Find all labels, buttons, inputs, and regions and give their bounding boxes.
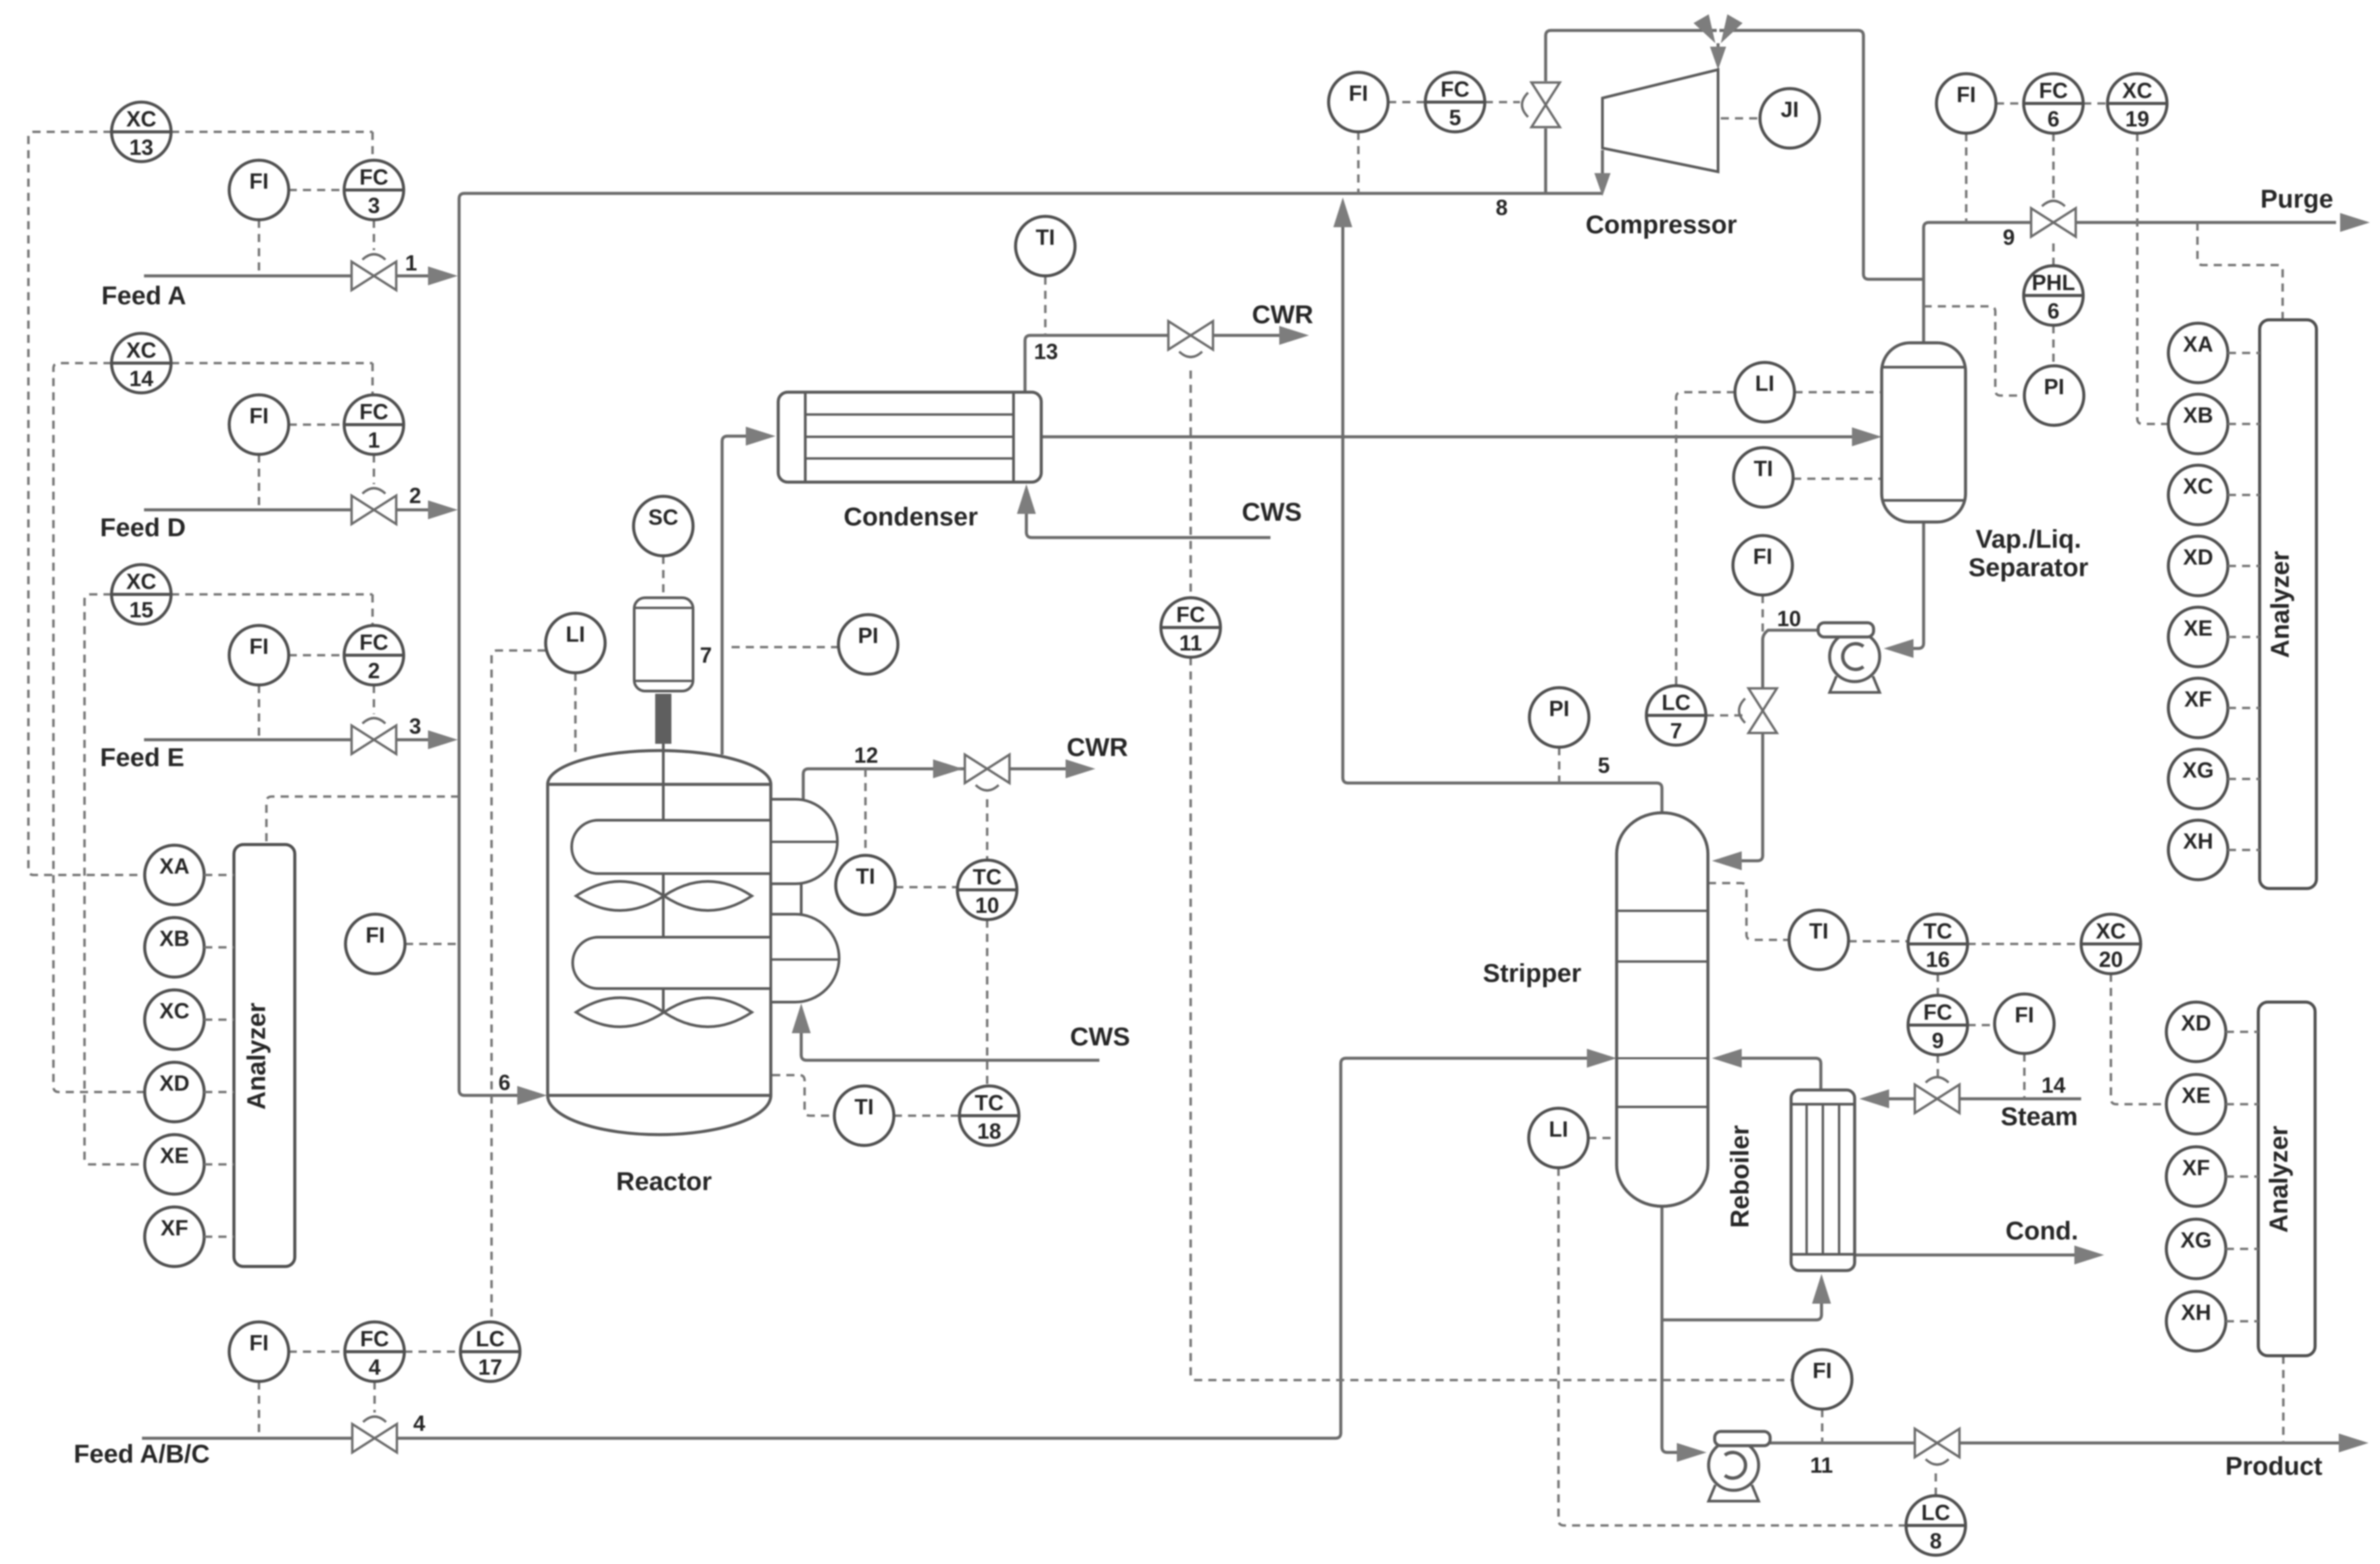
svg-text:FI: FI xyxy=(249,1331,268,1355)
svg-text:8: 8 xyxy=(1930,1529,1942,1553)
wire Purge arrow xyxy=(2340,213,2370,232)
wire FC11 output to product FI xyxy=(1191,657,1793,1380)
wire anti-surge arrow into suction junction xyxy=(1694,14,1723,47)
wire FC9 to steam valve xyxy=(1936,1055,1939,1079)
wire FI (steam) tap xyxy=(2023,1053,2026,1099)
wire XC19 sample from analyzer XB xyxy=(2137,133,2168,424)
wire TI (condenser) tap xyxy=(1044,277,1047,335)
reactor impeller upper xyxy=(576,882,752,911)
svg-text:CWS: CWS xyxy=(1070,1023,1130,1051)
svg-text:18: 18 xyxy=(977,1119,1001,1143)
svg-text:XH: XH xyxy=(2183,829,2213,853)
valve anti-surge (compressor recycle) xyxy=(1522,82,1560,127)
svg-text:FC: FC xyxy=(360,630,389,655)
wire XF to analyzer (feed) xyxy=(204,1235,234,1238)
instrument LC8 xyxy=(1906,1496,1966,1555)
wire PHL6 to PI xyxy=(2052,325,2055,366)
wire stripper bottoms down-leg xyxy=(1662,1204,1681,1452)
svg-text:Cond.: Cond. xyxy=(2005,1217,2078,1246)
svg-text:LC: LC xyxy=(1662,690,1691,715)
wire reactor LI tap to vessel xyxy=(574,673,577,752)
wire XG to analyzer (purge) xyxy=(2228,778,2260,780)
svg-text:6: 6 xyxy=(2047,299,2060,323)
svg-text:Compressor: Compressor xyxy=(1586,211,1737,239)
instrument XC (reactor feed analyzer) xyxy=(145,990,204,1049)
instrument FC4 xyxy=(345,1322,404,1381)
svg-text:XF: XF xyxy=(2185,687,2212,711)
wire XD to analyzer (product) xyxy=(2226,1030,2258,1033)
instrument XC14 xyxy=(112,333,171,393)
svg-text:LI: LI xyxy=(566,622,585,646)
wire stripper bottoms branch to reboiler xyxy=(1662,1301,1822,1320)
instrument FI (feed E) xyxy=(229,625,289,685)
wire FI-FC6 link xyxy=(1996,102,2024,105)
wire separator tap to PI xyxy=(1924,306,2024,396)
svg-text:11: 11 xyxy=(1179,631,1202,655)
reactor agitator motor xyxy=(634,598,693,691)
svg-text:XC: XC xyxy=(2183,474,2213,498)
wire FI (product) tap xyxy=(1821,1409,1824,1443)
wire feed A/B/C line to stripper (stream 4) xyxy=(142,1058,1589,1438)
wire feed D line (stream 2) xyxy=(144,508,433,512)
svg-text:Condenser: Condenser xyxy=(844,503,978,531)
wire purge sample to analyzer xyxy=(2197,222,2283,320)
svg-text:Product: Product xyxy=(2225,1452,2323,1481)
instrument LC7 xyxy=(1646,686,1706,745)
instrument XB (reactor feed analyzer) xyxy=(145,918,204,977)
svg-text:6: 6 xyxy=(2047,107,2060,131)
instrument XD (purge analyzer) xyxy=(2168,536,2228,596)
wire XB to analyzer (feed) xyxy=(204,946,234,949)
wire condenser CWS supply xyxy=(1026,512,1270,538)
svg-text:FI: FI xyxy=(1753,544,1772,569)
svg-text:Feed A: Feed A xyxy=(101,282,186,310)
svg-text:9: 9 xyxy=(1932,1028,1944,1053)
stripper column xyxy=(1617,813,1708,1206)
svg-text:1: 1 xyxy=(405,251,417,275)
svg-text:1: 1 xyxy=(368,428,380,452)
svg-text:13: 13 xyxy=(1034,339,1058,364)
svg-text:XD: XD xyxy=(160,1071,189,1095)
svg-text:Steam: Steam xyxy=(2001,1103,2078,1131)
instrument FC3 xyxy=(344,160,404,220)
svg-text:XC: XC xyxy=(126,569,156,594)
instrument FI (compressor suction) xyxy=(1329,72,1388,132)
wire XC14 sample line from analyzer XD xyxy=(53,363,144,1092)
wire XC20 sample from analyzer XE xyxy=(2111,974,2166,1104)
wire CWS arrow into reactor jacket xyxy=(792,1003,811,1033)
instrument FC6 xyxy=(2024,74,2083,133)
svg-text:XA: XA xyxy=(160,854,189,878)
wire CWS arrow into condenser xyxy=(1017,484,1036,514)
instrument XC (purge analyzer) xyxy=(2168,465,2228,525)
wire TI-TC10 link xyxy=(895,886,957,888)
analyzer box (reactor feed) xyxy=(234,845,295,1266)
wire XC14 output to FC1 xyxy=(171,363,373,395)
svg-text:CWR: CWR xyxy=(1067,734,1128,762)
svg-text:14: 14 xyxy=(2041,1073,2066,1097)
wire separator gas line to purge valve (stream 9) xyxy=(1924,222,2336,343)
wire PI (stripper overhead) tap xyxy=(1558,747,1561,783)
wire stripper tap to TI xyxy=(1708,883,1789,940)
instrument XF (reactor feed analyzer) xyxy=(145,1207,204,1266)
wire purge valve to PHL6 xyxy=(2052,243,2055,266)
wire XC15 sample line from analyzer XE xyxy=(85,594,144,1164)
wire XC to analyzer (purge) xyxy=(2228,494,2260,496)
svg-text:2: 2 xyxy=(368,659,380,683)
wire FC5 to anti-surge valve xyxy=(1485,101,1520,103)
svg-text:LI: LI xyxy=(1755,371,1774,396)
svg-text:15: 15 xyxy=(129,598,153,622)
valve 4 (feed A/B/C) xyxy=(352,1417,397,1452)
svg-text:TI: TI xyxy=(1754,456,1773,481)
instrument FI (stream 10) xyxy=(1733,536,1792,595)
instrument XC13 xyxy=(112,102,171,162)
wire feed E arrow into recycle header xyxy=(428,730,458,749)
wire CWR arrow (reactor) xyxy=(1066,759,1095,778)
svg-text:Separator: Separator xyxy=(1968,554,2089,582)
reactor impeller lower xyxy=(576,998,752,1027)
instrument XA (reactor feed analyzer) xyxy=(145,845,204,905)
wire Product arrow xyxy=(2339,1433,2369,1452)
instrument TI (separator) xyxy=(1734,448,1793,507)
svg-text:JI: JI xyxy=(1781,97,1799,122)
svg-text:TI: TI xyxy=(1036,225,1055,250)
instrument XG (purge analyzer) xyxy=(2168,749,2228,809)
valve 9 (purge) xyxy=(2031,201,2076,237)
svg-text:FC: FC xyxy=(1176,602,1206,627)
wire XC15 output to FC2 xyxy=(171,594,373,625)
wire arrow into stripper upper feed xyxy=(1712,851,1742,870)
wire FC9-FI link xyxy=(1968,1024,1995,1026)
wire steam line (stream 14) xyxy=(1888,1097,2081,1101)
product pump xyxy=(1709,1431,1770,1501)
instrument TC16 xyxy=(1908,914,1968,974)
wire compressor suction stub xyxy=(1717,43,1720,62)
wire compressor to JI xyxy=(1721,117,1760,120)
svg-text:TI: TI xyxy=(856,864,875,888)
wire stream 5 arrow joining recycle header xyxy=(1333,197,1352,227)
reboiler shell xyxy=(1791,1090,1855,1271)
svg-text:17: 17 xyxy=(478,1355,502,1379)
reactor agitator shaft xyxy=(655,694,671,1012)
svg-text:Vap./Liq.: Vap./Liq. xyxy=(1976,525,2081,554)
wire FC4 to valve 4 xyxy=(373,1381,376,1413)
vapor/liquid separator vessel xyxy=(1882,343,1966,522)
wire FC1 to valve 2 xyxy=(373,454,375,484)
wire LC8 to product valve xyxy=(1934,1467,1937,1496)
wire suction loop arrow into junction xyxy=(1713,14,1743,47)
wire XH to analyzer (product) xyxy=(2226,1320,2258,1323)
svg-text:FC: FC xyxy=(1924,1000,1953,1024)
svg-text:LI: LI xyxy=(1549,1117,1568,1141)
instrument FC2 xyxy=(344,625,404,685)
instrument XE (product analyzer) xyxy=(2166,1074,2226,1134)
wire arrow into product pump xyxy=(1677,1443,1707,1462)
svg-text:FI: FI xyxy=(1813,1358,1832,1383)
wire XF to analyzer (product) xyxy=(2226,1175,2258,1178)
wire FI-FC5 link xyxy=(1388,101,1425,103)
instrument XH (purge analyzer) xyxy=(2168,820,2228,880)
wire TI-TC16 link xyxy=(1849,940,1908,943)
wire XC13 sample line from analyzer XA xyxy=(28,132,144,875)
instrument FI (purge) xyxy=(1936,74,1996,133)
svg-text:Analyzer: Analyzer xyxy=(2266,551,2295,659)
svg-text:XE: XE xyxy=(2182,1083,2211,1108)
svg-text:XB: XB xyxy=(2183,403,2213,427)
svg-text:XH: XH xyxy=(2181,1300,2211,1325)
wire XF to analyzer (purge) xyxy=(2228,707,2260,709)
instrument LI (reactor) xyxy=(546,613,605,673)
svg-text:10: 10 xyxy=(975,893,999,918)
reactor cooling coil lower xyxy=(573,937,771,989)
svg-text:9: 9 xyxy=(2003,225,2015,250)
svg-text:13: 13 xyxy=(129,135,153,160)
svg-text:7: 7 xyxy=(1670,719,1682,743)
wire FI (feed A) tap xyxy=(258,220,260,276)
svg-text:Analyzer: Analyzer xyxy=(243,1003,271,1110)
svg-text:FC: FC xyxy=(1441,77,1470,101)
svg-text:2: 2 xyxy=(409,483,421,508)
valve 10 (separator liquid) xyxy=(1739,688,1777,733)
svg-text:PI: PI xyxy=(858,623,878,648)
svg-text:10: 10 xyxy=(1777,607,1801,631)
svg-text:FI: FI xyxy=(1349,81,1368,105)
wire FI (feed A/B/C) tap xyxy=(258,1381,260,1438)
wire XE to analyzer (product) xyxy=(2226,1103,2258,1106)
wire CWR valve 13 to FC11 xyxy=(1189,371,1192,598)
svg-text:6: 6 xyxy=(498,1070,510,1095)
svg-text:3: 3 xyxy=(368,193,380,218)
svg-text:Feed E: Feed E xyxy=(100,744,185,772)
svg-text:TI: TI xyxy=(1809,919,1828,943)
svg-text:FI: FI xyxy=(1957,82,1976,107)
instrument LC17 xyxy=(460,1322,520,1381)
wire FI (purge) tap xyxy=(1965,133,1968,222)
wire stream 6 arrow into reactor xyxy=(517,1086,547,1105)
svg-text:5: 5 xyxy=(1598,753,1610,778)
wire FI-FC2 link xyxy=(289,654,344,657)
svg-text:Analyzer: Analyzer xyxy=(2265,1126,2293,1233)
instrument SC (agitator speed) xyxy=(634,496,693,556)
instrument FI (product) xyxy=(1792,1350,1852,1409)
valve 11 (product) xyxy=(1915,1429,1959,1465)
analyzer box (product) xyxy=(2258,1002,2315,1356)
wire stripper LI to LC8 xyxy=(1558,1168,1905,1525)
instrument FI (feed A/B/C) xyxy=(229,1322,289,1381)
wire compressor anti-surge branch lower part xyxy=(1544,128,1548,193)
svg-text:XC: XC xyxy=(2122,78,2152,103)
wire XG to analyzer (product) xyxy=(2226,1248,2258,1250)
wire stream 4 arrow into stripper xyxy=(1587,1049,1617,1068)
wire FI (feed E) tap xyxy=(258,685,260,740)
condenser shell xyxy=(778,392,1041,482)
reactor vessel xyxy=(548,751,771,1135)
wire feed D arrow into recycle header xyxy=(428,500,458,519)
instrument FI (steam) xyxy=(1995,994,2054,1053)
wire recycle header: top run and down-leg to reactor (streams 8/6) xyxy=(459,193,1602,1095)
instrument XF (product analyzer) xyxy=(2166,1147,2226,1206)
svg-text:LC: LC xyxy=(1922,1500,1951,1525)
wire product line (stream 11) xyxy=(1769,1442,2339,1445)
instrument PI (stripper overhead) xyxy=(1529,688,1589,747)
instrument TI (stripper) xyxy=(1789,910,1849,970)
wire reactor jacket CWS supply xyxy=(801,1030,1099,1060)
wire FC2 to valve 3 xyxy=(373,685,375,714)
wire FI-FC4 link xyxy=(289,1350,345,1353)
svg-text:16: 16 xyxy=(1926,947,1950,972)
reactor jacket head lower xyxy=(771,914,839,1002)
svg-text:XC: XC xyxy=(160,999,189,1023)
svg-text:CWR: CWR xyxy=(1252,301,1314,329)
svg-text:14: 14 xyxy=(129,366,153,391)
instrument PI (separator) xyxy=(2024,366,2084,425)
instrument TI (reactor CWR) xyxy=(836,855,895,915)
svg-text:XD: XD xyxy=(2183,545,2213,569)
instrument XC15 xyxy=(112,565,171,624)
wire reactor LI to LC17 xyxy=(492,650,546,1322)
wire FI-FC3 link xyxy=(289,189,344,191)
instrument XA (purge analyzer) xyxy=(2168,323,2228,383)
instrument XG (product analyzer) xyxy=(2166,1219,2226,1279)
wire XE to analyzer (feed) xyxy=(204,1163,234,1166)
wire feed A arrow into recycle header xyxy=(428,266,458,285)
wire XD to analyzer (purge) xyxy=(2228,565,2260,567)
wire SC to agitator motor xyxy=(662,556,665,598)
wire stream 12 tap to TI xyxy=(864,769,867,855)
instrument FC11 xyxy=(1161,598,1220,657)
svg-text:FC: FC xyxy=(360,1327,389,1351)
compressor body xyxy=(1602,70,1718,172)
wire TC16-XC20 link xyxy=(1968,943,2081,945)
wire stripper overhead to recycle header (stream 5) xyxy=(1343,227,1662,813)
svg-text:XC: XC xyxy=(126,338,156,362)
wire XB to analyzer (purge) xyxy=(2228,423,2260,425)
instrument XC19 xyxy=(2108,74,2167,133)
wire arrow reboiler return into stripper xyxy=(1712,1049,1742,1068)
svg-text:XE: XE xyxy=(160,1143,189,1168)
svg-text:XG: XG xyxy=(2183,758,2214,782)
instrument XC20 xyxy=(2081,914,2141,974)
wire reboiler condensate line xyxy=(1855,1254,2076,1257)
instrument FI (feed A) xyxy=(229,160,289,220)
svg-text:TI: TI xyxy=(855,1095,874,1119)
svg-text:FI: FI xyxy=(249,634,268,659)
wire stripper LI tap xyxy=(1588,1137,1617,1139)
wire feed A line (stream 1) xyxy=(144,275,433,278)
svg-text:20: 20 xyxy=(2099,947,2123,972)
valve 12 (reactor CWR) xyxy=(965,755,1009,790)
valve 2 (feed D) xyxy=(352,488,396,524)
instrument XE (reactor feed analyzer) xyxy=(145,1135,204,1194)
instrument FC5 xyxy=(1425,72,1485,132)
wire reactor jacket CWR line (stream 12) xyxy=(803,769,1068,799)
reactor jacket head upper xyxy=(771,799,838,884)
svg-text:SC: SC xyxy=(648,505,678,529)
instrument JI (compressor) xyxy=(1760,89,1819,148)
svg-text:4: 4 xyxy=(413,1411,425,1436)
svg-text:LC: LC xyxy=(476,1327,505,1351)
wire FI (feed D) tap xyxy=(258,454,260,510)
wire XA to analyzer (purge) xyxy=(2228,352,2260,354)
wire separator LI to LC7 xyxy=(1676,392,1735,686)
instrument FC9 xyxy=(1908,995,1968,1055)
wire FC3 to valve 1 xyxy=(373,220,375,250)
svg-text:4: 4 xyxy=(368,1355,381,1379)
wire Cond. arrow xyxy=(2074,1246,2104,1264)
valve 13 (condenser CWR) xyxy=(1168,321,1213,357)
instrument PI (reactor) xyxy=(838,615,898,674)
instrument LI (stripper) xyxy=(1529,1108,1588,1168)
wire jacket head connector xyxy=(800,884,803,914)
instrument XB (purge analyzer) xyxy=(2168,394,2228,454)
svg-text:PI: PI xyxy=(1549,696,1569,721)
wire stream 7 arrow into condenser xyxy=(746,427,776,446)
svg-text:TC: TC xyxy=(1924,919,1953,943)
svg-text:Purge: Purge xyxy=(2260,185,2333,214)
svg-text:TC: TC xyxy=(973,865,1002,889)
wire XC to analyzer (feed) xyxy=(204,1018,234,1021)
svg-text:FI: FI xyxy=(249,404,268,428)
reactor cooling coil upper xyxy=(572,820,771,874)
valve 14 (steam) xyxy=(1915,1077,1959,1113)
wire arrow into separator pump xyxy=(1884,639,1913,658)
wire FI (compressor suction) tap xyxy=(1357,132,1360,193)
wire feed E line (stream 3) xyxy=(144,738,433,742)
wire reactor bottom tap to TI xyxy=(772,1075,834,1116)
svg-text:FI: FI xyxy=(366,923,385,947)
wire compressor anti-surge branch upper part xyxy=(1546,30,1717,81)
wire TC16 to FC9 xyxy=(1936,974,1939,995)
wire discharge arrow onto recycle header xyxy=(1594,173,1611,196)
svg-text:5: 5 xyxy=(1449,105,1461,130)
wire compressor discharge drop xyxy=(1601,150,1604,188)
wire FC4-LC17 link xyxy=(404,1350,460,1353)
analyzer box (purge) xyxy=(2260,320,2316,888)
wire FC6-XC19 link xyxy=(2083,102,2108,105)
svg-text:XC: XC xyxy=(2096,919,2126,943)
svg-text:XB: XB xyxy=(160,926,189,951)
valve 1 (feed A) xyxy=(352,254,396,290)
instrument PHL6 xyxy=(2024,266,2083,325)
wire stream 12 mid arrow xyxy=(933,759,963,778)
wire FI (reactor feed) tap xyxy=(405,943,459,945)
svg-text:FC: FC xyxy=(360,165,389,189)
svg-text:3: 3 xyxy=(409,714,421,738)
svg-text:FC: FC xyxy=(2039,78,2068,103)
wire XC13 output to FC3 xyxy=(171,132,373,160)
svg-text:8: 8 xyxy=(1496,195,1508,220)
svg-text:XA: XA xyxy=(2183,332,2213,356)
instrument FC1 xyxy=(344,395,404,454)
wire FI-FC1 link xyxy=(289,423,344,426)
svg-text:CWS: CWS xyxy=(1242,498,1302,527)
wire CWR arrow (condenser) xyxy=(1279,326,1309,345)
svg-text:FI: FI xyxy=(2015,1003,2034,1027)
instrument LI (separator) xyxy=(1735,362,1794,422)
svg-text:XF: XF xyxy=(161,1216,189,1240)
svg-text:PI: PI xyxy=(2044,375,2064,399)
svg-text:XE: XE xyxy=(2184,616,2213,640)
valve 3 (feed E) xyxy=(352,718,396,754)
wire reboiler vapor return to stripper xyxy=(1740,1058,1821,1090)
svg-text:11: 11 xyxy=(1810,1453,1833,1477)
svg-text:Stripper: Stripper xyxy=(1483,959,1581,988)
svg-text:7: 7 xyxy=(700,643,712,667)
svg-text:FC: FC xyxy=(360,400,389,424)
svg-text:Reactor: Reactor xyxy=(616,1168,712,1196)
wire product sample to analyzer xyxy=(2282,1356,2285,1443)
